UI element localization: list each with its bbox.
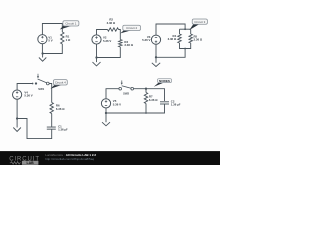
svg-text:Circuit 2: Circuit 2 — [126, 26, 137, 30]
resistor R1 — [61, 32, 64, 44]
svg-text:LAB: LAB — [26, 161, 34, 165]
svg-text:Circuit 4: Circuit 4 — [55, 80, 66, 84]
CircuitLab logo zigzag — [10, 162, 21, 165]
svg-text:3.36 Ω: 3.36 Ω — [107, 21, 116, 25]
ground circuit3 — [155, 57, 157, 63]
switch SW2 — [119, 87, 122, 90]
node junction c1 — [41, 52, 43, 54]
svg-text:1 Ω: 1 Ω — [66, 38, 71, 42]
ground circuit4 — [16, 119, 18, 128]
svg-text:3.36 Ω: 3.36 Ω — [194, 38, 203, 42]
svg-text:5.36 V: 5.36 V — [103, 39, 111, 43]
wire circuit4 top rail — [17, 84, 32, 90]
svg-text:5.36 V: 5.36 V — [24, 93, 32, 97]
capacitor C1 — [47, 126, 56, 128]
svg-text:http://circuitlab.com/c/8npx4m: http://circuitlab.com/c/8npx4ma8/5aq — [45, 157, 94, 161]
capacitor C2 — [160, 101, 169, 103]
svg-text:1.36 µF: 1.36 µF — [171, 103, 181, 107]
wire parallel top bar — [180, 28, 191, 30]
wire R2 to R3 corner — [119, 30, 121, 40]
wire circuit3 bottom rail — [156, 44, 185, 57]
svg-text:1.36 µF: 1.36 µF — [58, 128, 68, 132]
resistor R5 — [189, 34, 192, 43]
voltage source V4 — [13, 90, 22, 99]
svg-text:SW1: SW1 — [38, 87, 44, 91]
node junction c4 — [16, 117, 18, 119]
svg-text:3.36 Ω: 3.36 Ω — [124, 43, 133, 47]
node bottom bar junction — [184, 48, 186, 50]
wire circuit2 bottom rail — [97, 44, 121, 57]
resistor R4 — [178, 34, 181, 43]
voltage source V2 — [92, 35, 101, 44]
ground circuit1 — [42, 54, 44, 58]
svg-text:5 V: 5 V — [48, 39, 52, 43]
wire circuit2 top rail — [97, 30, 108, 35]
ground circuit2 — [96, 58, 98, 63]
node junction c3 — [155, 56, 157, 58]
node junction c5 left — [105, 112, 107, 114]
node junction c2 — [95, 56, 97, 58]
callout Circuit 1 — [60, 26, 72, 30]
svg-text:5.36 V: 5.36 V — [113, 102, 121, 106]
wire circuit1 bottom rail — [42, 44, 62, 54]
footer bar — [0, 151, 220, 165]
resistor R6 — [50, 103, 53, 114]
callout NODES — [154, 82, 164, 87]
resistor R2 — [108, 28, 119, 31]
svg-text:6.36 Ω: 6.36 Ω — [56, 107, 65, 111]
node top bar junction — [184, 28, 186, 30]
wire parallel bottom bar — [180, 43, 191, 49]
voltage source V5 — [101, 99, 110, 108]
wire circuit4 bottom path — [17, 99, 52, 138]
wire circuit3 top rail — [156, 24, 185, 35]
voltage source V3 — [151, 35, 160, 44]
callout Circuit 4 — [51, 85, 62, 89]
svg-text:SW2: SW2 — [123, 91, 129, 95]
resistor R7 — [145, 89, 147, 93]
callout Circuit 3 — [189, 24, 199, 30]
svg-text:3.36 Ω: 3.36 Ω — [168, 37, 177, 41]
node junction c5 R7 — [145, 112, 147, 114]
wire R6 to C1 — [51, 114, 53, 128]
node junction R7 top — [145, 88, 147, 90]
svg-text:5.36 V: 5.36 V — [142, 38, 150, 42]
svg-text:NODES: NODES — [159, 79, 170, 83]
callout Circuit 2 — [120, 30, 131, 33]
switch SW1 — [32, 83, 34, 85]
wire R7 bottom — [145, 104, 147, 114]
svg-text:Circuit 1: Circuit 1 — [65, 22, 76, 26]
wire circuit1 top rail — [42, 24, 62, 35]
wire switch to C2 corner — [134, 89, 165, 101]
wire switch to R6 — [49, 84, 52, 103]
svg-text:6.36 Ω: 6.36 Ω — [149, 98, 158, 102]
wire circuit5 top rail left — [106, 89, 119, 99]
wire circuit5 bottom rail — [106, 104, 165, 113]
CircuitLab logo LAB box — [22, 161, 39, 165]
svg-text:Circuit 3: Circuit 3 — [194, 20, 205, 24]
voltage source V1 — [38, 35, 47, 44]
ground circuit5 — [105, 113, 107, 122]
resistor R3 — [119, 40, 122, 48]
